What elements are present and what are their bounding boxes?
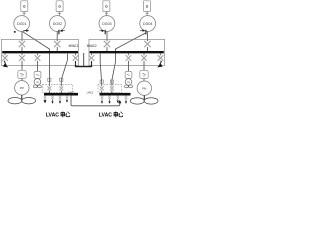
svg-text:DG02: DG02 [53, 22, 62, 26]
bus tie bar [75, 66, 92, 68]
load arrow A3 (bold) [44, 100, 47, 103]
LVAC1 dashed enclosure [43, 84, 73, 92]
generator DG01 [14, 16, 30, 32]
transformer T4 on LVAC2 feeder [110, 80, 113, 83]
load arrow A10 [117, 101, 119, 103]
generator DG02 [50, 16, 66, 32]
node dot left of DG01 drop [14, 31, 16, 33]
busbar LVAC1 [44, 93, 78, 96]
shaft PM2 [143, 95, 145, 99]
label glyph block 2 [66, 112, 70, 117]
label glyph block 1 [61, 112, 65, 118]
load arrow A4 [51, 101, 53, 103]
wire FC2 to PM2 [143, 79, 145, 81]
interconnector LVAC1 to LVAC2 [71, 95, 120, 106]
wire DG03 drop to MVAC2 bus [106, 31, 108, 41]
LVAC2 outgoing feeders [102, 95, 126, 101]
breaker CB-F1 [2, 55, 8, 61]
breaker CB-G4 [144, 41, 150, 47]
transformer T1 on LVAC1 feeder [48, 78, 51, 81]
thruster propeller P3 [125, 85, 133, 88]
switchboard enclosure MVAC1 [1, 39, 78, 65]
shaft coupling DG02 [58, 12, 61, 16]
diesel engine E3 (prime mover of DG03) [103, 1, 110, 12]
breaker CB-F7 [141, 55, 147, 61]
breaker CB-F2 [19, 55, 25, 61]
bus tie breaker CB-T2 [91, 61, 93, 67]
breaker CB-F3 [35, 55, 41, 61]
load arrow A7 [101, 101, 103, 103]
propeller P1 [8, 98, 36, 104]
shaft coupling DG01 [23, 12, 26, 16]
breaker CB-L3 (LVAC2 incomer) [100, 86, 104, 90]
thruster propeller P2 [33, 85, 41, 88]
breaker CB-L2 (LVAC1 incomer) [59, 86, 63, 90]
wire FC1 to PM1 [21, 79, 23, 81]
feeder F3 (to thruster converter TC1) [37, 54, 39, 56]
diesel engine E1 (prime mover of DG01) [21, 1, 28, 12]
feeder F4 (MVAC1 to LVAC1 right transformer) [61, 54, 67, 87]
wire tie center drop [83, 53, 85, 67]
arrow mark at DG04 terminal [140, 30, 146, 35]
thruster motor TM1 [34, 79, 41, 86]
wire cross-feed diagonal from DG01 to LVAC1 transformer feeder [23, 32, 50, 86]
busbar MVAC1 [2, 51, 78, 53]
wire DG01 drop to MVAC1 bus [21, 31, 23, 41]
propulsion motor PM2 [137, 81, 151, 95]
breaker CB-G1 [19, 41, 25, 47]
LVAC2 dashed enclosure [98, 84, 122, 92]
svg-text:LVAC2: LVAC2 [87, 90, 94, 94]
propeller P4 [130, 98, 158, 104]
breaker CB-L1 (LVAC1 incomer) [47, 86, 51, 90]
load arrow A8 [108, 101, 110, 103]
transformer T3 on LVAC2 feeder [100, 80, 103, 83]
arrow mark at DG01 terminal [23, 30, 28, 32]
svg-text:MVAC1: MVAC1 [69, 44, 79, 48]
breaker CB-L4 (LVAC2 incomer) [110, 86, 114, 90]
transformer T2 on LVAC1 feeder [60, 78, 63, 81]
busbar LVAC2 [100, 93, 131, 96]
load arrow A9 [125, 101, 127, 103]
svg-text:TM: TM [36, 82, 39, 84]
converter TC1 (bow thruster) [34, 71, 41, 78]
propulsion motor PM1 [15, 81, 29, 95]
wire DG02 drop to MVAC1 bus [56, 31, 58, 41]
breaker CB-G3 [104, 41, 110, 47]
switchboard enclosure MVAC2 [89, 39, 165, 65]
load arrow A5 [59, 101, 61, 103]
bus tie breaker CB-T1 [75, 54, 77, 56]
generator DG04 [140, 16, 156, 32]
thruster motor TM2 [125, 79, 132, 86]
busbar MVAC2 [90, 51, 164, 53]
svg-text:TM: TM [127, 82, 130, 84]
svg-text:PM: PM [142, 86, 147, 90]
feeder F2 (to propulsion converter FC1) [21, 54, 23, 56]
shaft PM1 [21, 95, 23, 100]
svg-text:LVAC1: LVAC1 [68, 90, 75, 94]
wire DG04 drop to MVAC2 bus [147, 31, 149, 41]
breaker CB-G2 [54, 41, 60, 47]
converter TC2 (bow thruster) [125, 71, 132, 78]
feeder F1 (MVAC1 shore/load) [4, 54, 6, 56]
shaft coupling DG04 [146, 12, 149, 16]
diesel engine E2 (prime mover of DG02) [56, 1, 63, 12]
svg-text:PM: PM [20, 86, 25, 90]
feeder F7 (to propulsion converter FC2) [143, 54, 145, 56]
svg-text:DG03: DG03 [102, 22, 111, 26]
svg-text:DG01: DG01 [17, 22, 26, 26]
load arrow A2 [158, 61, 162, 67]
wire cross-feed diagonal from DG04 to LVAC2 transformer feeder [112, 33, 146, 87]
svg-text:LVAC: LVAC [99, 113, 112, 119]
shaft coupling DG03 [105, 12, 108, 16]
load arrow A1 [4, 61, 8, 67]
label glyph block 4 [119, 112, 123, 117]
diesel engine E4 (prime mover of DG04) [144, 1, 151, 12]
feeder F8 (MVAC2 load) [160, 54, 162, 56]
converter FC2 (propulsion) [140, 70, 148, 78]
load arrow A6 [66, 100, 68, 102]
svg-text:LVAC: LVAC [46, 113, 59, 119]
arrow mark at DG02 terminal [59, 30, 65, 35]
svg-text:DG04: DG04 [143, 22, 152, 26]
generator DG03 [99, 16, 115, 32]
arrow mark at DG03 terminal [99, 30, 105, 35]
breaker CB-F8 [158, 55, 164, 61]
breaker CB-F6 [126, 55, 132, 61]
svg-text:MVAC2: MVAC2 [87, 44, 97, 48]
interconnector arrowhead [118, 100, 121, 103]
feeder F6 (to thruster converter TC2) [128, 54, 130, 56]
LVAC1 outgoing feeders [45, 95, 67, 101]
converter FC1 (propulsion) [18, 70, 26, 78]
label glyph block 3 [114, 112, 118, 118]
feeder F5 (MVAC2 to LVAC2 left transformer) [100, 54, 102, 87]
